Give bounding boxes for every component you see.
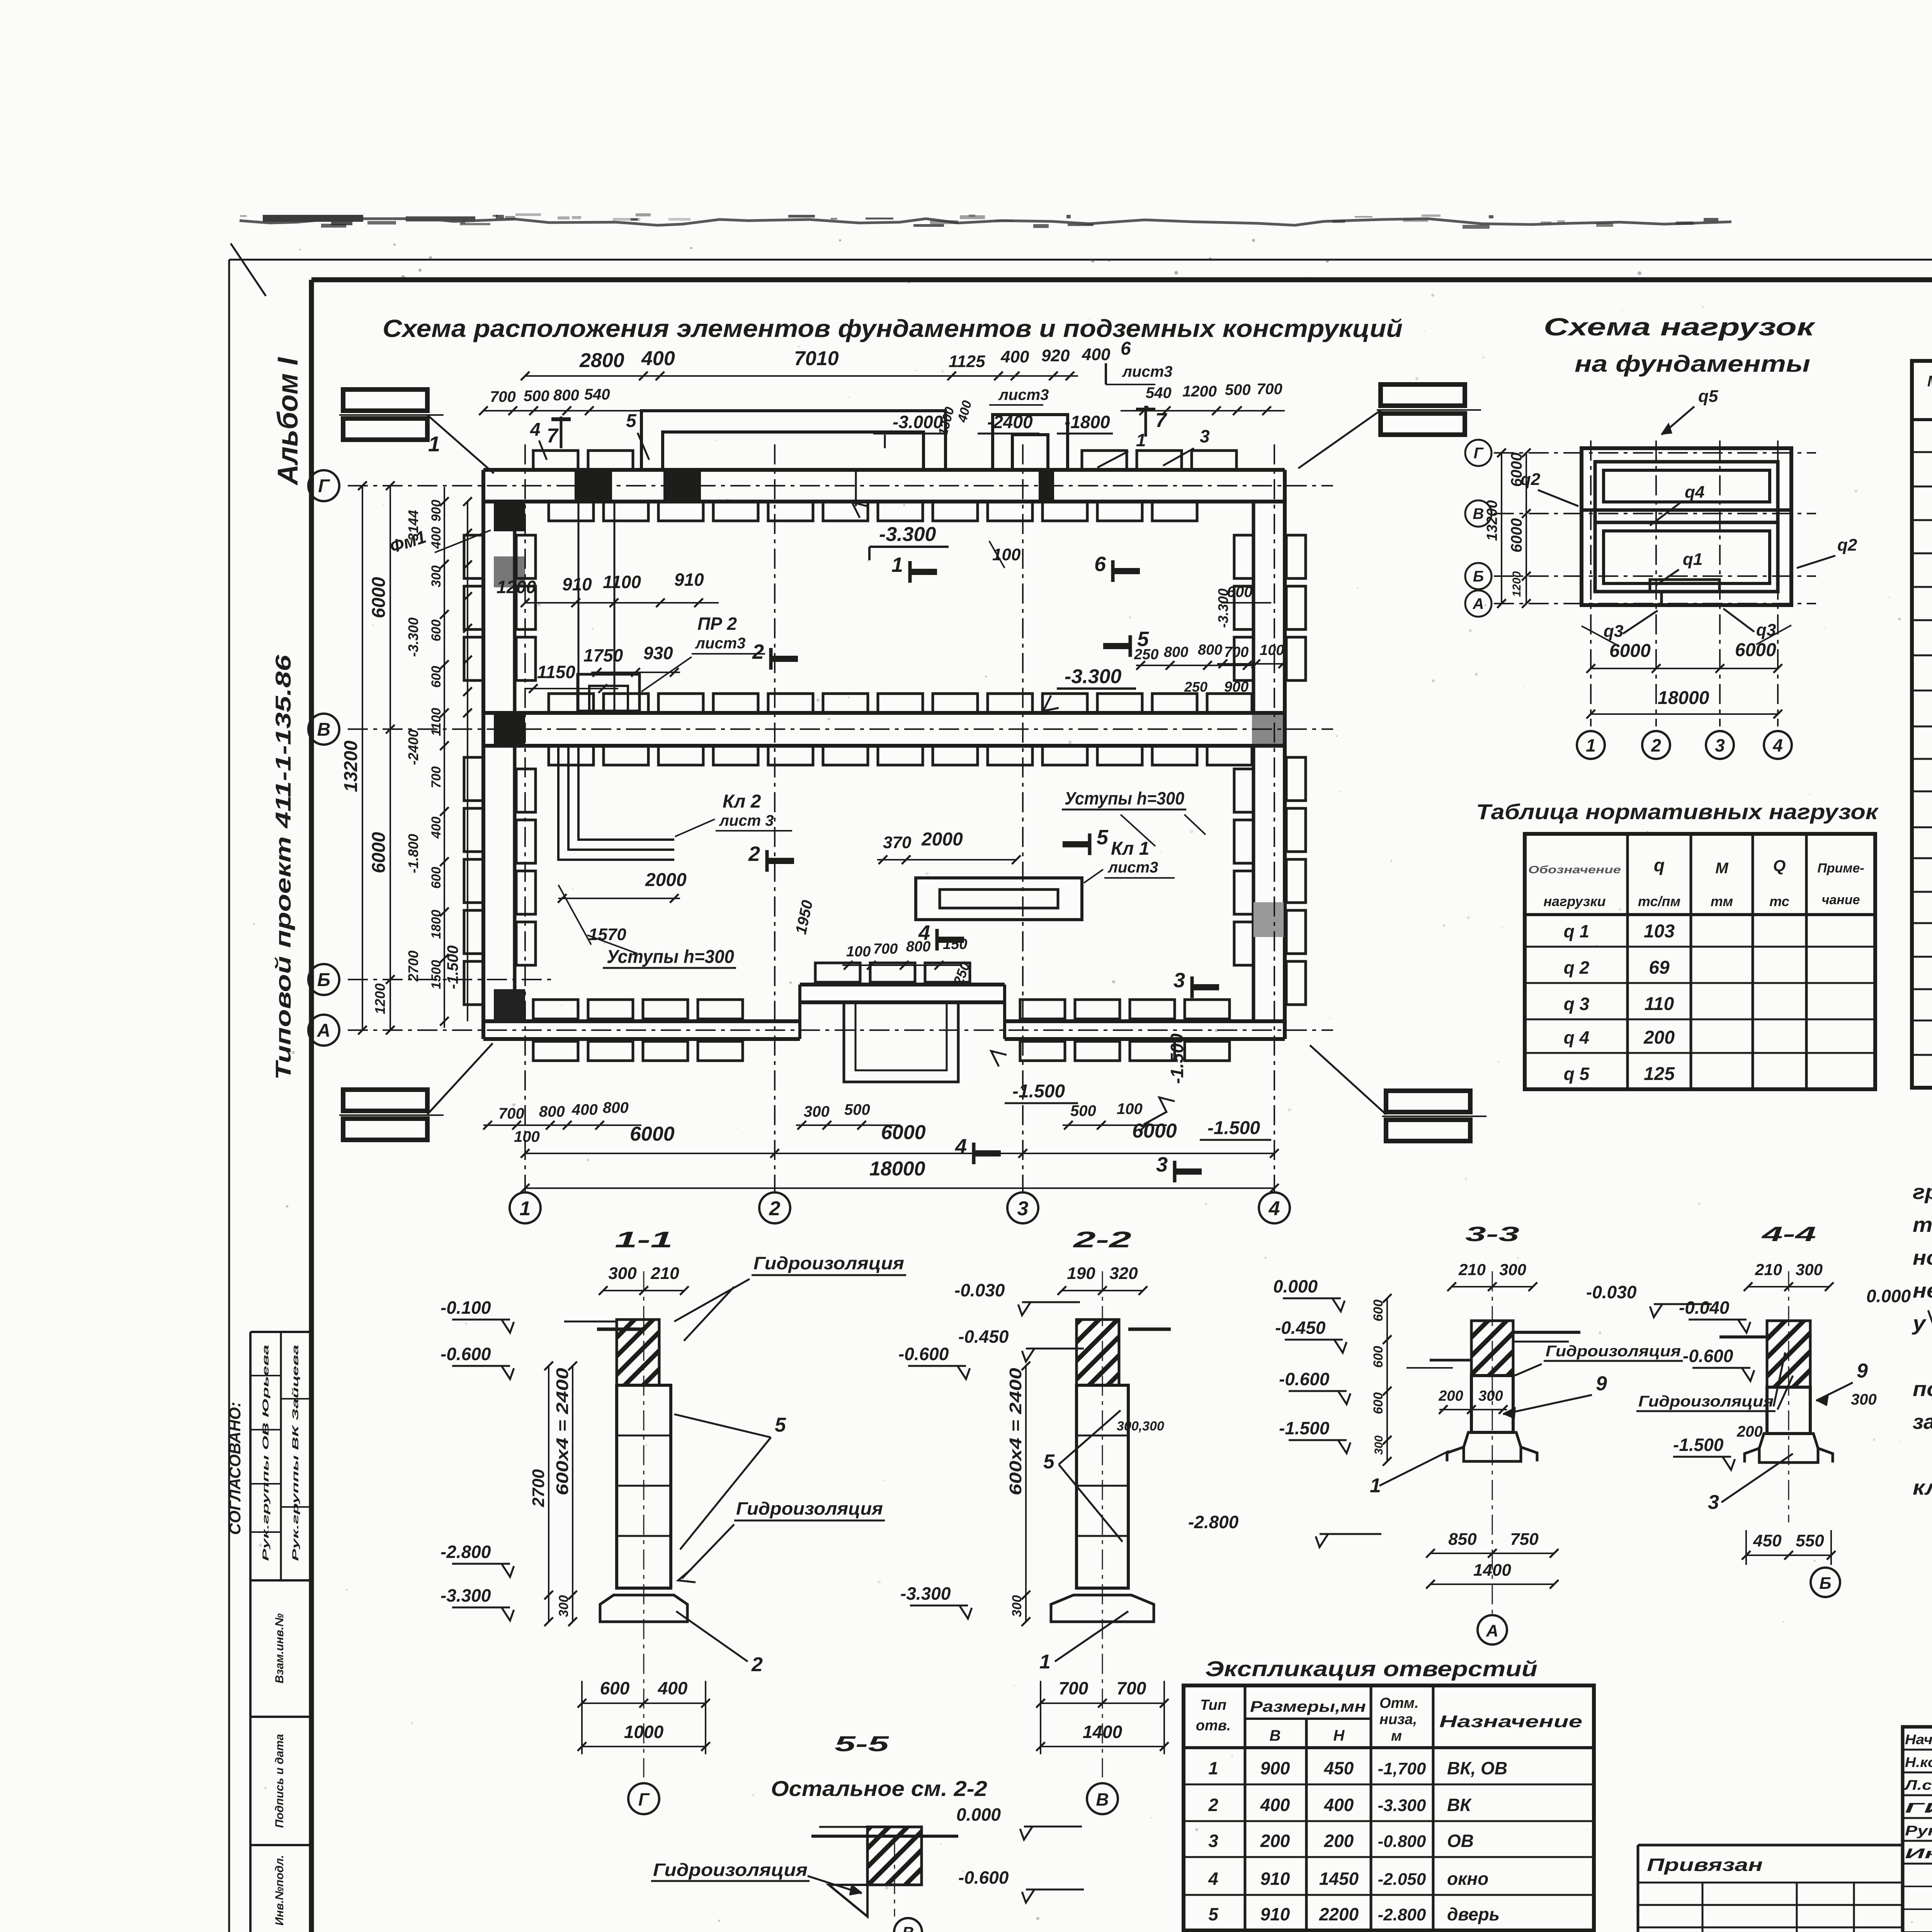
svg-text:800: 800 — [1198, 642, 1222, 658]
svg-text:-3.300: -3.300 — [1378, 1796, 1426, 1815]
svg-text:1800: 1800 — [429, 910, 444, 939]
svg-text:700: 700 — [1224, 644, 1248, 660]
svg-text:Б: Б — [317, 970, 330, 990]
svg-text:1: 1 — [520, 1197, 531, 1220]
svg-text:Отм.: Отм. — [1379, 1695, 1419, 1711]
svg-text:засыпать местным грунтом с: засыпать местным грунтом с тщательным уп… — [1913, 1410, 1932, 1434]
svg-text:-1.500: -1.500 — [1279, 1418, 1330, 1438]
svg-text:1: 1 — [1370, 1475, 1381, 1497]
svg-text:-3.300: -3.300 — [405, 617, 421, 657]
svg-text:4: 4 — [1208, 1869, 1218, 1889]
svg-text:лист3: лист3 — [1107, 859, 1158, 876]
svg-text:м: м — [1391, 1728, 1402, 1744]
svg-text:500: 500 — [1225, 381, 1251, 398]
svg-text:Гидроизоляция: Гидроизоляция — [653, 1860, 808, 1880]
svg-text:69: 69 — [1649, 957, 1670, 978]
svg-text:-3.300: -3.300 — [879, 523, 936, 546]
svg-text:q 1: q 1 — [1564, 921, 1589, 941]
svg-text:400: 400 — [429, 816, 444, 839]
svg-text:тивный угол внутреннего тре: тивный угол внутреннего трения Фн = 0.49… — [1913, 1213, 1932, 1236]
svg-text:Экспликация отверстий: Экспликация отверстий — [1205, 1656, 1537, 1681]
svg-text:850: 850 — [1448, 1530, 1477, 1549]
svg-text:600: 600 — [1371, 1346, 1386, 1368]
svg-text:-1800: -1800 — [1065, 412, 1110, 432]
svg-text:700: 700 — [1257, 381, 1282, 398]
svg-text:6000: 6000 — [1132, 1120, 1177, 1142]
svg-text:18000: 18000 — [869, 1158, 925, 1180]
svg-text:300: 300 — [1478, 1388, 1503, 1404]
svg-text:Н.контр: Н.контр — [1905, 1754, 1932, 1770]
svg-text:3-3: 3-3 — [1465, 1223, 1519, 1246]
svg-text:Рук.группы ВК Зайцева: Рук.группы ВК Зайцева — [291, 1345, 300, 1561]
svg-text:250: 250 — [1134, 646, 1158, 663]
svg-text:800: 800 — [603, 1099, 629, 1116]
svg-text:-3.300: -3.300 — [1215, 588, 1231, 628]
svg-text:Кл 2: Кл 2 — [723, 791, 761, 812]
svg-text:Типовой проект 411-1-135.86: Типовой проект 411-1-135.86 — [271, 655, 295, 1080]
svg-text:В: В — [902, 1923, 914, 1932]
svg-text:1: 1 — [1039, 1651, 1051, 1673]
svg-text:800: 800 — [539, 1103, 565, 1120]
svg-text:6000: 6000 — [1508, 518, 1525, 553]
svg-text:-3.300: -3.300 — [900, 1583, 951, 1604]
svg-text:300: 300 — [1796, 1260, 1823, 1279]
svg-text:1200: 1200 — [497, 577, 536, 597]
svg-text:600: 600 — [600, 1678, 630, 1698]
svg-text:0.000: 0.000 — [956, 1804, 1001, 1825]
svg-text:2: 2 — [1208, 1795, 1218, 1815]
svg-text:Взам.инв.№: Взам.инв.№ — [273, 1613, 286, 1683]
svg-text:9: 9 — [1857, 1360, 1868, 1382]
svg-text:на фундаменты: на фундаменты — [1575, 351, 1810, 377]
svg-text:2000: 2000 — [921, 829, 963, 850]
svg-text:500: 500 — [844, 1101, 870, 1118]
svg-text:-0.030: -0.030 — [1586, 1282, 1637, 1302]
svg-text:Схема нагрузок: Схема нагрузок — [1544, 313, 1816, 341]
svg-text:400: 400 — [641, 347, 675, 370]
svg-text:-0.030: -0.030 — [954, 1280, 1005, 1300]
svg-text:2: 2 — [752, 640, 764, 663]
svg-text:4: 4 — [530, 420, 541, 440]
svg-text:ОВ: ОВ — [1447, 1831, 1474, 1851]
svg-text:1: 1 — [1208, 1758, 1218, 1778]
svg-text:500: 500 — [1070, 1102, 1096, 1119]
svg-text:-0.450: -0.450 — [958, 1327, 1009, 1347]
svg-text:ПР 2: ПР 2 — [697, 614, 737, 634]
svg-text:600: 600 — [1371, 1299, 1386, 1321]
svg-text:Рук.группы ОВ Юрьева: Рук.группы ОВ Юрьева — [261, 1345, 270, 1561]
svg-text:200: 200 — [1260, 1831, 1290, 1851]
svg-text:-1.500: -1.500 — [1673, 1435, 1724, 1455]
svg-text:q 3: q 3 — [1564, 994, 1590, 1014]
svg-text:100: 100 — [514, 1128, 540, 1145]
svg-text:110: 110 — [1645, 994, 1674, 1014]
svg-text:900: 900 — [1260, 1758, 1290, 1778]
svg-text:400: 400 — [658, 1678, 688, 1698]
svg-text:1750: 1750 — [583, 645, 623, 665]
svg-text:550: 550 — [1796, 1531, 1824, 1550]
svg-text:-0.600: -0.600 — [898, 1344, 949, 1364]
svg-text:2700: 2700 — [529, 1469, 548, 1507]
svg-text:-1.500: -1.500 — [1167, 1033, 1187, 1084]
svg-text:400: 400 — [1324, 1795, 1354, 1815]
svg-text:Б: Б — [1819, 1574, 1831, 1593]
svg-text:13200: 13200 — [341, 740, 361, 792]
svg-text:А: А — [1473, 595, 1484, 612]
svg-text:600: 600 — [429, 619, 444, 641]
svg-text:q3: q3 — [1756, 621, 1776, 639]
svg-text:-1.500: -1.500 — [1207, 1118, 1260, 1138]
svg-text:А: А — [1486, 1621, 1498, 1640]
svg-text:Гидроизоляция: Гидроизоляция — [736, 1498, 883, 1519]
svg-text:Инв.№подл.: Инв.№подл. — [273, 1855, 286, 1926]
svg-text:Н: Н — [1333, 1727, 1345, 1744]
svg-text:910: 910 — [1260, 1904, 1290, 1924]
svg-text:6: 6 — [1094, 553, 1106, 576]
svg-text:Кл 1: Кл 1 — [1111, 838, 1149, 859]
svg-text:400: 400 — [1000, 347, 1029, 366]
svg-text:чание: чание — [1822, 893, 1860, 907]
svg-text:СОГЛАСОВАНО:: СОГЛАСОВАНО: — [226, 1402, 244, 1535]
svg-text:-1.500: -1.500 — [1012, 1081, 1065, 1102]
svg-text:3: 3 — [1715, 735, 1725, 755]
svg-text:-0.800: -0.800 — [1378, 1832, 1426, 1851]
svg-text:750: 750 — [1510, 1530, 1539, 1549]
svg-text:300: 300 — [804, 1103, 830, 1120]
svg-text:900: 900 — [1224, 679, 1248, 695]
svg-text:Приме-: Приме- — [1817, 861, 1864, 876]
svg-text:5-5: 5-5 — [835, 1731, 889, 1756]
svg-text:1: 1 — [428, 432, 440, 456]
svg-text:-0.450: -0.450 — [1275, 1318, 1326, 1338]
svg-text:300: 300 — [1851, 1391, 1877, 1408]
svg-text:2000: 2000 — [645, 870, 687, 890]
svg-text:2200: 2200 — [1319, 1904, 1359, 1924]
svg-text:210: 210 — [650, 1264, 679, 1283]
svg-text:1200: 1200 — [372, 983, 388, 1014]
svg-text:-3.000: -3.000 — [893, 412, 943, 432]
svg-text:Б: Б — [1473, 568, 1484, 585]
svg-text:930: 930 — [643, 643, 673, 663]
svg-text:1: 1 — [891, 553, 903, 577]
svg-text:лист 3: лист 3 — [719, 812, 774, 829]
svg-text:400: 400 — [429, 527, 444, 549]
svg-text:900: 900 — [429, 500, 444, 522]
svg-text:1-1: 1-1 — [615, 1227, 673, 1252]
svg-text:2-2: 2-2 — [1073, 1227, 1131, 1252]
svg-text:2: 2 — [1651, 735, 1661, 755]
svg-text:-3.300: -3.300 — [1065, 665, 1122, 688]
svg-text:6000: 6000 — [1508, 452, 1525, 487]
svg-text:800: 800 — [1164, 644, 1188, 660]
svg-text:100: 100 — [846, 944, 871, 960]
svg-text:ное удельное сцепление Сн=2к: ное удельное сцепление Сн=2кПа (0.02кгс/… — [1913, 1246, 1932, 1269]
svg-text:q1: q1 — [1683, 550, 1702, 569]
svg-text:ВК: ВК — [1447, 1795, 1472, 1815]
svg-text:лист3: лист3 — [695, 635, 745, 652]
svg-text:1150: 1150 — [537, 662, 575, 682]
svg-text:300: 300 — [1499, 1260, 1526, 1279]
svg-text:2: 2 — [748, 842, 760, 866]
svg-text:Л.спец.: Л.спец. — [1903, 1777, 1932, 1793]
svg-text:6000: 6000 — [881, 1121, 926, 1144]
svg-text:Уступы h=300: Уступы h=300 — [1065, 788, 1184, 808]
svg-text:-2.800: -2.800 — [440, 1542, 491, 1562]
svg-text:В: В — [1270, 1727, 1281, 1744]
svg-text:3144: 3144 — [405, 510, 421, 541]
svg-text:700: 700 — [490, 388, 516, 405]
svg-text:540: 540 — [584, 386, 610, 403]
svg-text:-2.050: -2.050 — [1378, 1870, 1426, 1889]
svg-text:Г: Г — [318, 476, 330, 497]
svg-text:18000: 18000 — [1658, 688, 1709, 708]
svg-text:1125: 1125 — [949, 352, 985, 371]
svg-text:низа,: низа, — [1379, 1711, 1417, 1728]
svg-text:400: 400 — [1260, 1795, 1290, 1815]
svg-text:q 2: q 2 — [1564, 957, 1590, 978]
svg-text:тс/пм: тс/пм — [1638, 893, 1680, 909]
svg-text:Схема расположения элементов ф: Схема расположения элементов фундаментов… — [383, 315, 1403, 342]
svg-text:q 4: q 4 — [1564, 1027, 1589, 1048]
svg-text:В: В — [317, 719, 331, 740]
svg-text:6000: 6000 — [369, 577, 389, 618]
svg-text:1000: 1000 — [624, 1722, 664, 1742]
svg-text:5: 5 — [1043, 1451, 1055, 1473]
svg-text:Привязан: Привязан — [1647, 1855, 1763, 1875]
svg-text:-0.040: -0.040 — [1679, 1298, 1730, 1318]
svg-text:910: 910 — [674, 570, 704, 590]
svg-text:-2400: -2400 — [987, 412, 1033, 432]
svg-text:600: 600 — [429, 867, 444, 889]
svg-text:Нач.отд: Нач.отд — [1905, 1731, 1932, 1747]
svg-text:Q: Q — [1773, 857, 1786, 875]
svg-text:q5: q5 — [1698, 387, 1718, 406]
svg-text:200: 200 — [1643, 1027, 1675, 1048]
svg-text:300: 300 — [1372, 1435, 1385, 1455]
svg-text:700: 700 — [429, 766, 444, 788]
svg-text:540: 540 — [1146, 384, 1172, 401]
svg-text:лист3: лист3 — [1122, 363, 1172, 380]
svg-text:700: 700 — [873, 941, 898, 957]
svg-text:Гидроизоляция: Гидроизоляция — [753, 1253, 904, 1273]
svg-text:1400: 1400 — [1083, 1722, 1122, 1742]
svg-text:300,300: 300,300 — [1117, 1419, 1164, 1434]
svg-text:Таблица нормативных нагрузок: Таблица нормативных нагрузок — [1476, 799, 1879, 824]
svg-text:6000: 6000 — [1735, 640, 1776, 660]
svg-text:600х4 = 2400: 600х4 = 2400 — [553, 1367, 572, 1495]
svg-text:-0.600: -0.600 — [440, 1344, 491, 1364]
svg-text:250: 250 — [1184, 679, 1207, 695]
svg-text:1200: 1200 — [1182, 383, 1217, 400]
svg-text:-1.500: -1.500 — [444, 946, 461, 989]
svg-text:5: 5 — [626, 411, 637, 431]
svg-text:320: 320 — [1109, 1264, 1138, 1283]
svg-text:q 5: q 5 — [1564, 1064, 1590, 1084]
svg-text:подготовку толщиной 100мм. П: подготовку толщиной 100мм. Промежутки ме… — [1913, 1378, 1932, 1401]
svg-text:-0.100: -0.100 — [440, 1298, 491, 1318]
svg-text:q2: q2 — [1837, 536, 1857, 554]
svg-text:Тип: Тип — [1200, 1697, 1226, 1713]
svg-text:300: 300 — [429, 565, 444, 587]
svg-text:-2400: -2400 — [405, 730, 421, 765]
svg-text:класса В 12.5. Объем бетона: класса В 12.5. Объем бетона 4.8 м³. — [1913, 1476, 1932, 1499]
svg-text:2: 2 — [751, 1653, 763, 1676]
svg-text:4: 4 — [1269, 1197, 1280, 1220]
svg-text:600: 600 — [1371, 1392, 1386, 1414]
svg-text:Остальное см. 2-2: Остальное см. 2-2 — [771, 1776, 987, 1801]
svg-text:1: 1 — [1136, 430, 1146, 450]
svg-text:тс: тс — [1769, 893, 1789, 909]
svg-text:Альбом I: Альбом I — [272, 357, 304, 486]
svg-text:4: 4 — [918, 921, 930, 944]
svg-text:6000: 6000 — [369, 832, 389, 873]
svg-text:ВК, ОВ: ВК, ОВ — [1447, 1758, 1507, 1778]
svg-text:В: В — [1473, 505, 1484, 522]
svg-text:1500: 1500 — [429, 960, 444, 989]
svg-text:дверь: дверь — [1447, 1904, 1500, 1924]
svg-text:700: 700 — [498, 1105, 524, 1122]
svg-text:500: 500 — [524, 388, 549, 405]
svg-text:5: 5 — [1097, 826, 1109, 849]
svg-text:210: 210 — [1755, 1260, 1782, 1279]
svg-text:7010: 7010 — [794, 347, 839, 370]
svg-text:3: 3 — [1173, 969, 1185, 992]
svg-text:А: А — [317, 1020, 331, 1041]
svg-text:q4: q4 — [1685, 483, 1704, 502]
svg-text:В: В — [1096, 1789, 1109, 1810]
svg-text:5: 5 — [775, 1414, 786, 1436]
svg-text:-2.800: -2.800 — [1378, 1905, 1426, 1924]
svg-text:тм: тм — [1711, 893, 1733, 909]
svg-text:920: 920 — [1041, 346, 1070, 365]
svg-text:910: 910 — [562, 574, 592, 594]
svg-text:лист3: лист3 — [998, 386, 1049, 403]
svg-text:-0.600: -0.600 — [958, 1867, 1009, 1888]
svg-text:2: 2 — [769, 1197, 781, 1220]
svg-text:200: 200 — [1736, 1423, 1763, 1440]
svg-text:450: 450 — [1324, 1758, 1354, 1778]
svg-text:3: 3 — [1708, 1491, 1719, 1514]
svg-text:6: 6 — [1121, 338, 1131, 359]
svg-text:200: 200 — [1324, 1831, 1354, 1851]
svg-text:-2.800: -2.800 — [1188, 1512, 1239, 1532]
svg-text:Назначение: Назначение — [1439, 1712, 1582, 1731]
svg-text:-1,700: -1,700 — [1378, 1759, 1426, 1778]
svg-text:400: 400 — [571, 1101, 598, 1118]
svg-text:Гидроизоляция: Гидроизоляция — [1638, 1393, 1774, 1410]
svg-text:4: 4 — [1772, 735, 1783, 755]
svg-text:нескальных грунтов Е = 14.7м: нескальных грунтов Е = 14.7мПа (150кгс/с… — [1913, 1279, 1932, 1302]
svg-text:1200: 1200 — [1510, 571, 1523, 597]
svg-text:отв.: отв. — [1196, 1718, 1231, 1734]
svg-text:600х4 = 2400: 600х4 = 2400 — [1006, 1367, 1025, 1495]
svg-text:300: 300 — [1010, 1595, 1024, 1617]
svg-text:Обозначение: Обозначение — [1528, 864, 1621, 876]
svg-text:1100: 1100 — [603, 572, 641, 592]
svg-text:0.000: 0.000 — [1866, 1286, 1911, 1306]
svg-text:окно: окно — [1447, 1869, 1488, 1889]
svg-text:700: 700 — [1117, 1678, 1146, 1698]
svg-text:0.000: 0.000 — [1273, 1276, 1318, 1296]
svg-text:1450: 1450 — [1319, 1869, 1359, 1889]
svg-text:370: 370 — [883, 833, 912, 852]
svg-text:-3.300: -3.300 — [440, 1585, 491, 1605]
svg-text:грунтах с условными нормативн: грунтах с условными нормативными характе… — [1913, 1180, 1932, 1204]
svg-text:450: 450 — [1753, 1531, 1782, 1550]
svg-text:300: 300 — [556, 1595, 571, 1617]
svg-text:300: 300 — [608, 1264, 637, 1283]
svg-text:3: 3 — [1208, 1831, 1218, 1851]
svg-text:125: 125 — [1644, 1064, 1675, 1084]
svg-text:3: 3 — [1017, 1197, 1029, 1220]
svg-text:910: 910 — [1260, 1869, 1290, 1889]
svg-text:400: 400 — [1082, 345, 1111, 364]
svg-text:800: 800 — [553, 387, 579, 404]
svg-text:210: 210 — [1458, 1260, 1486, 1279]
svg-text:Инж.: Инж. — [1905, 1845, 1932, 1861]
svg-text:100: 100 — [1117, 1100, 1143, 1117]
svg-text:-0.600: -0.600 — [1683, 1346, 1733, 1366]
svg-text:6000: 6000 — [1609, 641, 1651, 661]
svg-text:5: 5 — [1208, 1904, 1219, 1924]
svg-text:2800: 2800 — [579, 349, 624, 372]
svg-text:103: 103 — [1644, 921, 1675, 942]
svg-text:1400: 1400 — [1473, 1561, 1511, 1580]
svg-text:ГИП: ГИП — [1905, 1800, 1932, 1816]
svg-text:Размеры,мн: Размеры,мн — [1250, 1698, 1366, 1715]
svg-text:Г: Г — [638, 1789, 650, 1810]
svg-text:Марка,: Марка, — [1927, 373, 1932, 390]
svg-text:4-4: 4-4 — [1761, 1223, 1816, 1246]
svg-text:7: 7 — [547, 425, 559, 447]
svg-text:Г: Г — [1474, 445, 1484, 462]
svg-text:190: 190 — [1067, 1264, 1095, 1283]
svg-text:q3: q3 — [1604, 622, 1623, 641]
svg-text:1: 1 — [1586, 735, 1596, 755]
svg-text:Подпись и дата: Подпись и дата — [273, 1734, 286, 1828]
svg-text:нагрузки: нагрузки — [1543, 893, 1605, 909]
svg-text:Гидроизоляция: Гидроизоляция — [1546, 1343, 1681, 1360]
svg-text:7: 7 — [1155, 409, 1167, 432]
svg-text:-0.600: -0.600 — [1279, 1369, 1330, 1389]
svg-text:2700: 2700 — [405, 951, 421, 982]
svg-text:М: М — [1715, 860, 1729, 877]
svg-text:13200: 13200 — [1484, 500, 1500, 541]
svg-text:700: 700 — [1059, 1678, 1088, 1698]
svg-text:3: 3 — [1200, 426, 1210, 446]
svg-text:200: 200 — [1438, 1388, 1463, 1404]
svg-text:6000: 6000 — [630, 1123, 675, 1145]
svg-text:9: 9 — [1596, 1372, 1607, 1395]
svg-text:100: 100 — [1260, 642, 1284, 658]
svg-text:600: 600 — [429, 666, 444, 688]
svg-text:1570: 1570 — [588, 925, 626, 944]
svg-text:q: q — [1654, 855, 1665, 875]
svg-text:4: 4 — [955, 1135, 967, 1158]
svg-text:1100: 1100 — [429, 708, 444, 736]
svg-text:3: 3 — [1156, 1153, 1168, 1176]
svg-text:-1.800: -1.800 — [405, 834, 421, 873]
svg-text:Рук.гр.: Рук.гр. — [1905, 1823, 1932, 1838]
